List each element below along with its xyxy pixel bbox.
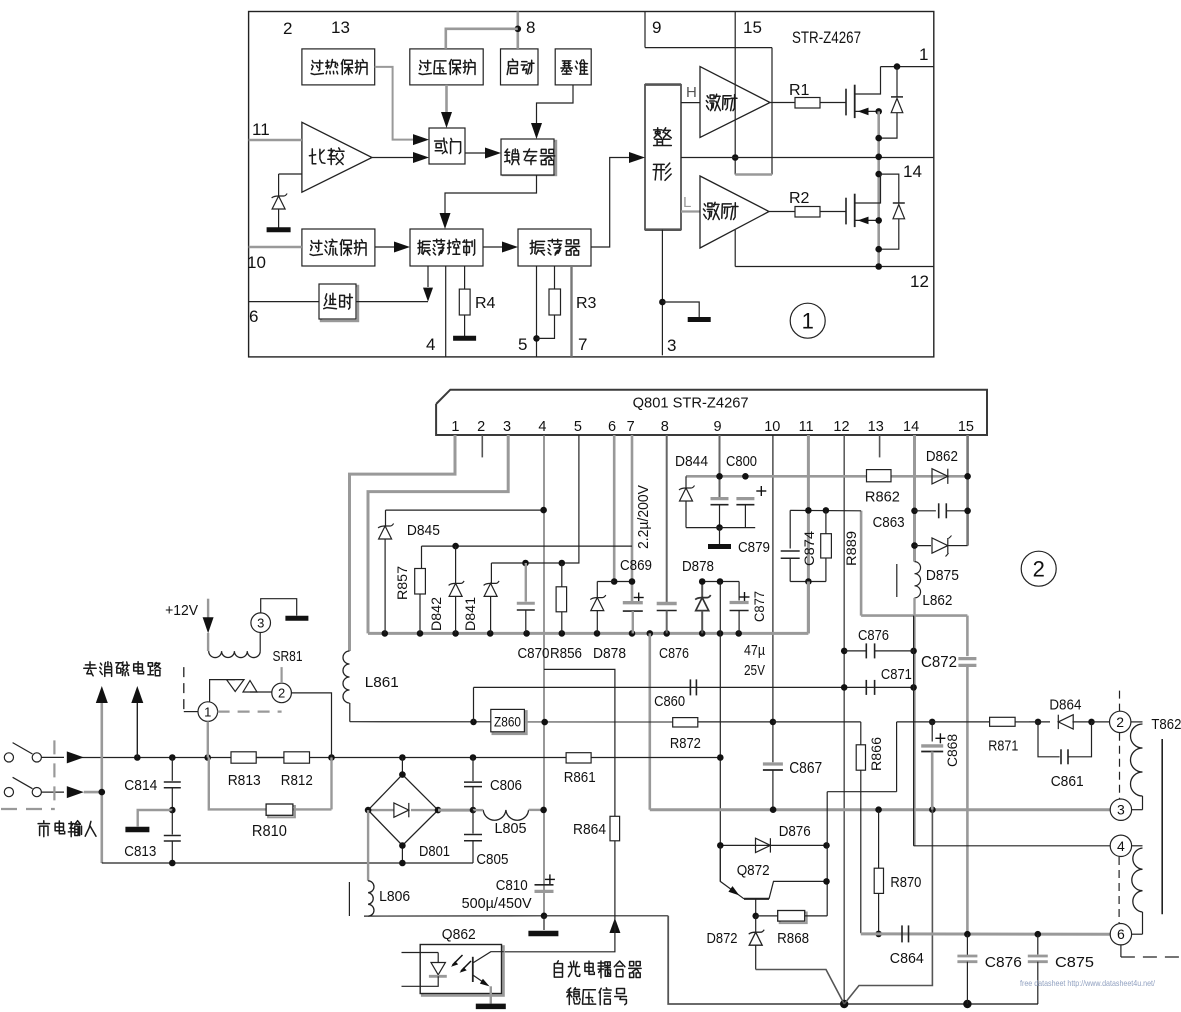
wire SR81 2 right [291,693,331,758]
resistor R868 [780,913,807,924]
node bridge N [399,860,406,867]
wire L805 to pin4 [529,809,544,811]
row pin9 link [702,581,739,583]
zener D878b [701,582,703,598]
svg-text:14: 14 [903,162,922,181]
block OR gate 或门 [429,128,465,164]
wire to ground pin3 [662,302,699,317]
body diode lower [879,174,899,203]
wire OR gate to latch [465,152,487,154]
switch dashed link [53,740,55,808]
svg-text:C868: C868 [944,734,960,767]
R871 row [897,721,990,723]
node C868 rail [929,806,936,813]
block shaper 整形 [645,85,681,230]
svg-text:C876: C876 [659,645,689,662]
pin 12 row [735,266,933,268]
svg-text:4: 4 [1117,838,1125,854]
optocoupler Q862 box [422,947,503,996]
pin 9 cell divider [644,12,646,48]
svg-text:free datasheet http://www.data: free datasheet http://www.datasheet4u.ne… [1020,978,1156,988]
capacitor C874 branch [789,510,791,548]
svg-text:C860: C860 [654,693,685,710]
node D878b top [699,578,706,585]
svg-text:3: 3 [1117,802,1125,818]
resistor R870 [878,810,880,869]
SR81 winding [209,651,261,657]
wire +12V [207,599,209,623]
diode D875 zener [915,545,932,547]
row6 C864 [861,932,1110,935]
pin 5 wire [491,435,579,563]
capacitor C867 [763,762,783,765]
capacitor C810 electrolytic [545,878,555,880]
node C871 left [841,684,848,691]
block delay 延时 [321,286,358,321]
T862 pin circled 3 [1110,799,1131,820]
MOSFET upper source [855,110,879,112]
svg-text:R813: R813 [228,772,261,789]
svg-text:D842: D842 [428,597,444,631]
resistor R1 [770,102,795,104]
node R861 right [717,754,724,761]
row pin4 T862 [914,845,1111,847]
ground bar SR81 [285,616,308,621]
pin 15 wire [966,435,969,546]
node source junction [875,108,882,115]
svg-text:1: 1 [802,309,814,334]
wire D872 to center [756,970,845,1005]
ground bar C879 [708,544,731,549]
wire col 827 [826,792,828,916]
circled 3 [251,613,271,633]
node D801 top branch [399,754,406,761]
svg-text:C814: C814 [124,777,157,794]
svg-text:D841: D841 [462,597,478,631]
node bottom rail pin12 [840,1000,848,1008]
ground below zener [267,227,291,232]
svg-text:STR-Z4267: STR-Z4267 [792,28,861,47]
block overheat protection 过热保护 [302,49,375,85]
loop bottom [790,581,826,583]
ground bar C813 [125,827,149,833]
capacitor C861 loop [1038,722,1060,757]
node D875 left [911,542,918,549]
node pin1 [894,63,901,70]
svg-text:11: 11 [252,120,270,139]
node D864 left [1035,719,1042,726]
driver amp L 激励 [700,176,769,248]
svg-text:15: 15 [958,419,974,435]
diode D862 [932,469,948,484]
svg-text:3: 3 [257,615,264,630]
ground bar C810 [528,931,558,937]
svg-text:6: 6 [608,419,616,435]
node pin11 bottom [805,578,812,585]
node pin3 [659,299,666,306]
opto light arrows [453,955,463,965]
pin 14 wire [913,435,916,562]
R810 loop [209,758,266,810]
mains line top [78,757,566,759]
capacitor C814 [171,758,173,781]
degauss vertical 1 [101,700,104,863]
N line bottom [102,862,473,864]
svg-text:R861: R861 [564,769,596,786]
svg-text:R862: R862 [865,489,900,506]
svg-text:25V: 25V [744,662,765,679]
svg-text:R856: R856 [550,645,582,662]
capacitor C864 [901,925,903,942]
svg-text:D875: D875 [926,567,959,584]
zener D842 [455,546,457,583]
svg-text:13: 13 [868,419,884,435]
node R810 left riser [328,754,335,761]
T862 dashed 4-6 [1118,857,1120,923]
IC internal block diagram outer border [249,12,934,357]
zener D841 [490,563,492,583]
bus node [663,630,670,637]
node R3-pin5 [533,335,540,342]
svg-text:C864: C864 [890,950,924,967]
ground pin3 [688,317,711,322]
svg-text:8: 8 [526,18,535,37]
capacitor C870 [525,563,527,602]
bus node [452,630,459,637]
svg-text:L806: L806 [379,888,410,905]
node C863 right [964,508,971,515]
svg-text:R870: R870 [890,874,921,891]
gray link row [860,511,863,616]
svg-text:Q862: Q862 [442,926,476,943]
label mains input 市电输入 [38,821,49,837]
block start 启动 [501,49,539,85]
HV rail [650,808,1110,811]
svg-text:13: 13 [331,18,350,37]
loop bottom wire [686,527,755,529]
node Z860 pin4 [541,719,548,726]
wire link down to C872 [966,616,969,657]
diode D876 [756,838,771,852]
svg-text:D878: D878 [593,645,626,662]
pin 1 wire [350,435,456,651]
node pin12 row [875,263,882,270]
node C800 rail [742,473,749,480]
fb row corner [668,916,1038,1004]
wire L862 bottom [913,598,915,846]
bus node [487,630,494,637]
bus node [417,630,424,637]
svg-text:R864: R864 [573,821,606,838]
pin 11 wire [807,435,810,633]
wire C860 left branch [473,687,475,722]
capacitor C876b row [844,650,866,652]
bus node [717,630,724,637]
bus node [523,630,530,637]
resistor R813 [231,752,256,763]
C868 branch [929,719,936,726]
node C813 mid [169,807,176,814]
node C871 right [910,684,917,691]
svg-text:C876: C876 [858,627,889,644]
svg-text:R4: R4 [475,295,496,312]
block overcurrent protection 过流保护 [302,229,375,266]
svg-text:L861: L861 [365,674,399,691]
zener D872 [755,916,757,932]
inductor L861 [343,651,349,703]
degauss arrow 1 [96,686,108,703]
ground stub C879 [719,528,721,544]
resistor R871 [990,717,1016,726]
node bridge left [365,807,372,814]
wire pin11 input [249,139,302,142]
wire pin3 to ground [261,599,297,616]
svg-text:C871: C871 [881,666,912,683]
svg-text:8: 8 [661,419,669,435]
wire comparator output to OR gate [372,157,413,159]
bridge rectifier D801 [401,758,403,775]
wire pin11 to bus [807,582,810,634]
svg-text:L: L [683,194,691,211]
svg-text:2: 2 [278,686,285,701]
wire fb slant right [844,810,932,1004]
MOSFET upper gate [845,89,847,116]
bus node [559,630,566,637]
resistor R3 [554,266,556,289]
resistor R812 [284,752,310,763]
svg-text:2: 2 [283,19,292,38]
zener D844 branch [685,476,687,488]
svg-text:D844: D844 [675,453,708,470]
pin 9 wire [719,435,721,499]
svg-text:3: 3 [503,419,511,435]
wire L806 to fb row [364,915,544,917]
capacitor C872 [958,657,976,660]
bus node [382,630,389,637]
zener D878a [590,595,606,600]
C800 top rail [686,475,968,478]
svg-text:2: 2 [1033,557,1045,582]
svg-text:12: 12 [833,419,849,435]
svg-text:R868: R868 [777,930,809,947]
row D845 [386,509,544,511]
switch S1 [4,753,13,762]
diode D864 [1029,721,1050,723]
MOSFET lower gate [845,198,847,225]
node C806 top [470,754,477,761]
svg-text:2.2µ/200V: 2.2µ/200V [636,485,652,549]
node bridge right [435,807,442,814]
wire N line [84,791,102,794]
svg-text:C874: C874 [801,531,817,566]
svg-text:C810: C810 [496,877,528,894]
node L805 left [470,807,477,814]
node pin11 top [805,507,812,514]
C860 row [544,686,914,688]
block oscillator 振荡器 [518,229,591,266]
MOSFET upper drain [855,67,881,94]
fb row [544,915,668,917]
resistor R4 [464,266,466,289]
node diode return [875,135,882,142]
T862 winding 4-6 [1132,845,1143,847]
T862 pin circled 4 [1110,835,1131,856]
wire pin6 to delay [249,301,319,303]
switch S2 [4,788,13,797]
svg-text:+12V: +12V [165,602,198,619]
resistor R2 [769,211,795,213]
svg-text:D872: D872 [707,930,738,947]
wire comparator lower input [279,173,302,175]
node pin8 [515,26,522,33]
svg-text:D864: D864 [1049,697,1081,714]
svg-text:C800: C800 [726,453,757,470]
capacitor C800 electrolytic [756,490,766,492]
pin 4 wire [543,435,545,916]
svg-text:R810: R810 [252,823,287,840]
capacitor C869 electrolytic [634,597,644,599]
resistor R864 [610,816,620,841]
svg-text:14: 14 [903,419,919,435]
node pin9 link [717,578,724,585]
T862 bottom dashed [1120,945,1122,957]
node R889 top [823,507,830,514]
svg-text:Q801 STR-Z4267: Q801 STR-Z4267 [633,395,749,412]
svg-text:R812: R812 [281,772,313,789]
bus node [647,630,654,637]
wire pin3 shaper ground [661,230,663,356]
wire R813-R812 [256,757,284,759]
block oscillation control 振荡控制 [410,229,483,266]
wire bus to rail [648,633,651,809]
svg-text:C813: C813 [124,843,156,860]
node lower diode top [875,171,882,178]
svg-text:12: 12 [910,272,929,291]
node SR81 bottom [204,754,211,761]
wire pin10 input [249,246,302,249]
T862 core [1161,739,1163,914]
row 792 [827,791,896,793]
svg-text:T862: T862 [1151,716,1181,733]
svg-text:10: 10 [764,419,780,435]
wire pin8 to overvoltage [446,29,518,49]
node R870 bottom [875,931,882,938]
inductor L806 [368,881,374,916]
wire overvoltage to OR gate with arrow [445,85,448,113]
capacitor C860 [689,679,691,695]
block overvoltage protection 过压保护 [410,49,483,85]
MOSFET lower channel [854,194,856,227]
resistor R861 [566,753,591,763]
node N junction [99,789,106,796]
node R868 left [752,913,759,920]
wire SR81 1 down [207,721,209,757]
ground stub C810 [543,916,545,930]
wire bridge left down [367,810,369,881]
capacitor C879 ceramic [711,497,729,500]
driver amp H 激励 [700,67,770,138]
MOSFET upper arrow [858,108,869,116]
node D862 out [964,473,971,480]
wire osc control to oscillator [483,246,504,248]
node R870 rail [875,806,882,813]
svg-text:C879: C879 [738,539,770,556]
node Q872 collector [823,878,830,885]
wire shaper L output [681,210,700,212]
svg-text:C872: C872 [921,654,957,671]
label to degauss circuit 去消磁电路 [84,662,96,676]
ground bar Q862 [476,1004,506,1010]
node D876 left [717,842,724,849]
posistor dashed left [183,667,185,712]
resistor R856 [561,563,563,587]
degauss vertical 2 [136,700,138,758]
svg-text:2: 2 [477,419,485,435]
feedback riser R864 [544,669,615,816]
wire pin5 [536,266,538,357]
wire pin4 [445,266,447,357]
node R872 pin10 [770,719,777,726]
opto transistor [472,957,474,982]
cell line right vertical [771,48,773,175]
svg-text:D845: D845 [407,522,440,539]
capacitor C868 electrolytic [935,737,945,739]
wire pin8 top [516,12,519,49]
bus gnd gray [368,632,808,635]
svg-text:D878: D878 [682,558,714,575]
svg-text:C806: C806 [490,777,522,794]
svg-text:R872: R872 [670,735,701,752]
capacitor C876a [657,602,677,605]
feedback arrow [609,918,620,933]
label photocoupler line2 稳压信号 [567,988,581,1005]
svg-text:1: 1 [451,419,459,435]
ground branch C813 [138,810,173,827]
ground below R4 [453,336,476,341]
node C867 bottom rail [770,806,777,813]
resistor R810 [268,806,295,817]
capacitor C877 electrolytic [740,596,750,598]
svg-text:47µ: 47µ [744,642,765,659]
wire R872 row to R866 [773,721,861,723]
node R856 top [559,560,566,567]
node C863 left [911,508,918,515]
wire oscillator to shaper with arrow [591,158,629,248]
wire overcurrent to osc control [375,246,396,248]
svg-text:5: 5 [574,419,582,435]
node C810 bottom [541,913,548,920]
node bottom rail C876c [963,1000,971,1008]
wire D801 right rail [438,809,473,812]
T862 winding 2-3 [1131,721,1143,723]
svg-text:9: 9 [714,419,722,435]
svg-text:1: 1 [919,45,928,64]
svg-text:R1: R1 [789,82,810,99]
wire opto fb [504,916,615,952]
bus node [629,630,636,637]
svg-text:4: 4 [426,335,435,354]
svg-text:3: 3 [667,336,676,355]
svg-text:L862: L862 [922,592,952,609]
pin 8 wire [666,435,668,604]
node pin7 row [629,578,636,585]
capacitor C871 [865,680,867,695]
inductor L862 [915,562,921,598]
svg-text:Q872: Q872 [737,862,770,879]
svg-text:C870: C870 [518,645,550,662]
node D842 top [452,543,459,550]
wire pin9 down [719,582,721,882]
